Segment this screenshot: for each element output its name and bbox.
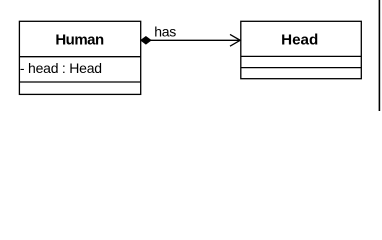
svg-text:Head: Head (281, 31, 318, 48)
composition diamond at Human end (141, 37, 151, 44)
class box Human (19, 21, 140, 94)
Human attr/method separator (19, 81, 140, 83)
open arrowhead at Head end (230, 34, 240, 46)
vertical panel edge line (378, 0, 380, 111)
class box Head (241, 21, 361, 78)
Human title/attr separator (19, 56, 140, 58)
association wire Human to Head (151, 39, 240, 41)
Head attr/method separator (241, 67, 361, 69)
svg-text:- head : Head: - head : Head (20, 60, 102, 76)
Head title/attr separator (241, 55, 361, 57)
svg-text:Human: Human (55, 31, 104, 48)
svg-text:has: has (154, 23, 176, 39)
